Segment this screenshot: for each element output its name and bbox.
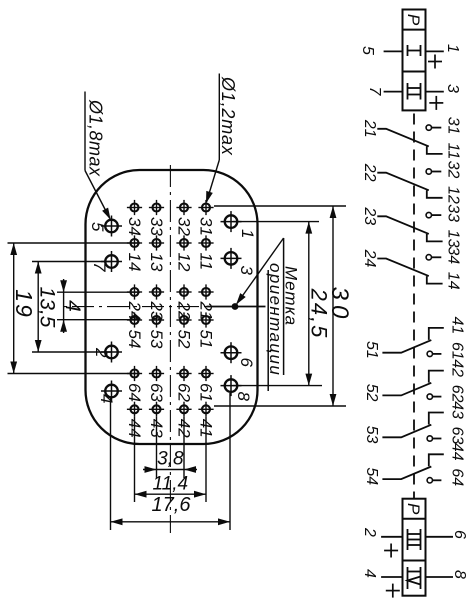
wire winding III to pin 2 bbox=[381, 536, 402, 538]
svg-text:Р: Р bbox=[404, 503, 423, 515]
small contact pin 62 bbox=[176, 366, 191, 381]
label Metka orientacii shelf bbox=[283, 238, 285, 375]
svg-text:14: 14 bbox=[125, 253, 144, 272]
contact group 21: fixed contact 31 (circle) bbox=[426, 125, 441, 130]
orientation mark dot bbox=[232, 303, 239, 310]
small contact pin 32 bbox=[176, 200, 191, 215]
wire winding IV to pin 4 bbox=[381, 576, 402, 578]
dim 11,4 line bbox=[135, 493, 207, 495]
svg-text:Ø1,8max: Ø1,8max bbox=[86, 99, 106, 177]
vertical centerline bbox=[61, 306, 234, 308]
svg-text:53: 53 bbox=[147, 330, 166, 349]
wire winding II to pin 7 bbox=[384, 91, 403, 93]
small contact pin 21 bbox=[198, 284, 213, 299]
contact group 21: movable arm from pin 21 bbox=[377, 129, 429, 147]
svg-text:3,8: 3,8 bbox=[157, 449, 184, 470]
svg-text:34: 34 bbox=[445, 246, 462, 264]
svg-text:31: 31 bbox=[197, 217, 216, 236]
callout Ø1,2max shelf bbox=[218, 74, 220, 161]
dim 4 line (outside arrows) bbox=[63, 279, 65, 333]
svg-text:11: 11 bbox=[197, 253, 216, 271]
svg-text:61: 61 bbox=[197, 383, 216, 402]
svg-text:54: 54 bbox=[363, 467, 380, 485]
svg-text:22: 22 bbox=[361, 163, 378, 182]
contact group 22: fixed contact 12 (L) bbox=[427, 190, 443, 198]
small contact pin 24 bbox=[127, 284, 142, 299]
large contact pin 7 bbox=[101, 251, 122, 272]
svg-text:43: 43 bbox=[449, 401, 466, 419]
svg-text:51: 51 bbox=[363, 341, 380, 359]
dim 24,5 line bbox=[308, 222, 310, 386]
contact group 23: fixed contact 33 (circle) bbox=[426, 212, 441, 217]
label Metka leader arrow to orientation dot bbox=[237, 238, 284, 304]
small contact pin 42 bbox=[176, 402, 191, 417]
callout Ø1,8max shelf bbox=[84, 92, 86, 171]
contact group 52: fixed contact 62 (circle) bbox=[427, 394, 441, 399]
dim 3,8 line (outside arrows) bbox=[143, 469, 197, 471]
contact group 51: movable arm from pin 51 bbox=[382, 340, 431, 353]
svg-text:62: 62 bbox=[449, 385, 466, 403]
svg-text:32: 32 bbox=[445, 161, 462, 179]
dim 19 extension line (col 6x) bbox=[8, 373, 141, 375]
svg-text:3: 3 bbox=[444, 84, 461, 93]
connector body outline (rounded rectangle) bbox=[86, 170, 258, 444]
svg-text:7: 7 bbox=[366, 87, 383, 97]
wire winding II to pin 3 bbox=[426, 91, 444, 93]
small contact pin 63 bbox=[149, 366, 164, 381]
contact group 24: fixed contact 14 (L) bbox=[427, 276, 443, 284]
svg-text:4: 4 bbox=[361, 569, 378, 578]
svg-text:44: 44 bbox=[449, 443, 466, 461]
svg-text:12: 12 bbox=[175, 253, 194, 272]
svg-text:33: 33 bbox=[445, 204, 462, 222]
small contact pin 33 bbox=[149, 200, 164, 215]
svg-text:52: 52 bbox=[175, 330, 194, 349]
svg-text:17,6: 17,6 bbox=[152, 494, 192, 516]
relay coil box U2 (P, windings III, IV) bbox=[403, 499, 426, 596]
horizontal centerline bbox=[169, 165, 171, 533]
small contact pin 12 bbox=[176, 235, 191, 250]
winding II numeral bbox=[408, 83, 421, 100]
dim 4 extension line (col 5x) bbox=[57, 319, 140, 321]
large contact pin 6 bbox=[221, 342, 242, 363]
svg-text:31: 31 bbox=[445, 117, 462, 135]
svg-text:63: 63 bbox=[147, 383, 166, 402]
callout Ø1,2max leader arrow to pin 31 bbox=[207, 160, 220, 202]
svg-text:6: 6 bbox=[237, 358, 256, 368]
small contact pin 51 bbox=[198, 312, 213, 327]
svg-text:ориентации: ориентации bbox=[266, 263, 285, 376]
dim 24,5 extension line left (pin 1) bbox=[233, 221, 319, 223]
svg-text:19: 19 bbox=[11, 289, 37, 319]
contact group 51: fixed contact 41 (L) bbox=[429, 328, 444, 340]
polarity mark + (pin 2) bbox=[384, 544, 398, 558]
svg-text:4: 4 bbox=[61, 300, 84, 312]
small contact pin 23 bbox=[149, 284, 164, 299]
svg-text:11,4: 11,4 bbox=[153, 474, 189, 495]
svg-text:3: 3 bbox=[237, 266, 256, 276]
svg-text:64: 64 bbox=[125, 383, 144, 402]
svg-text:62: 62 bbox=[175, 383, 194, 402]
small contact pin 31 bbox=[198, 200, 213, 215]
contact group 52: movable arm from pin 52 bbox=[382, 383, 431, 396]
winding III numeral bbox=[408, 529, 421, 550]
dim 30 extension line right (col 4x) bbox=[214, 405, 346, 407]
polarity mark + (pin 4) bbox=[386, 584, 400, 598]
svg-text:12: 12 bbox=[445, 186, 462, 204]
wire winding I to pin 5 bbox=[384, 50, 403, 52]
svg-text:Ø1,2max: Ø1,2max bbox=[218, 76, 238, 156]
small contact pin 41 bbox=[198, 402, 213, 417]
dim 4 extension line (col 2x) bbox=[57, 291, 140, 293]
svg-text:53: 53 bbox=[363, 426, 380, 444]
contact group 54: movable arm from pin 54 bbox=[382, 467, 431, 480]
svg-text:Р: Р bbox=[404, 14, 423, 26]
svg-text:63: 63 bbox=[449, 427, 466, 445]
small contact pin 14 bbox=[127, 235, 142, 250]
svg-text:13,5: 13,5 bbox=[36, 287, 59, 328]
svg-text:54: 54 bbox=[125, 330, 144, 349]
wire winding III to pin 6 bbox=[426, 536, 454, 538]
label Metka orientacii underline bbox=[267, 270, 269, 391]
svg-text:13: 13 bbox=[445, 230, 462, 248]
large contact pin 2 bbox=[101, 342, 122, 363]
small contact pin 44 bbox=[127, 402, 142, 417]
contact group 21: fixed contact 11 (L) bbox=[427, 146, 443, 154]
svg-text:1: 1 bbox=[238, 229, 257, 238]
large contact pin 3 bbox=[221, 248, 242, 269]
dim 17,6 line bbox=[111, 521, 231, 523]
small contact pin 43 bbox=[149, 402, 164, 417]
small contact pin 11 bbox=[198, 235, 213, 250]
svg-text:4: 4 bbox=[97, 394, 116, 403]
small contact pin 53 bbox=[149, 312, 164, 327]
dim 3,8 extension line (pin 42) bbox=[183, 417, 185, 478]
contact group 53: movable arm from pin 53 bbox=[382, 425, 431, 438]
dim 30 extension line left (col 3x) bbox=[214, 205, 346, 207]
svg-text:21: 21 bbox=[361, 119, 378, 138]
svg-text:32: 32 bbox=[175, 217, 194, 236]
contact group 53: fixed contact 43 (L) bbox=[429, 413, 444, 425]
dim 3,8 extension line (pin 43) bbox=[156, 417, 158, 478]
callout Ø1,8max leader arrow to pin 5 bbox=[85, 171, 110, 219]
svg-text:23: 23 bbox=[361, 206, 378, 225]
dim 17,6 extension line (pin 8) bbox=[229, 393, 231, 530]
svg-text:61: 61 bbox=[449, 342, 466, 360]
svg-text:24: 24 bbox=[361, 249, 378, 268]
orientation mark line bbox=[207, 306, 266, 308]
dim 24,5 extension line right (pin 8) bbox=[233, 385, 322, 387]
svg-text:8: 8 bbox=[451, 570, 468, 579]
small contact pin 54 bbox=[127, 312, 142, 327]
small contact pin 61 bbox=[198, 366, 213, 381]
svg-text:52: 52 bbox=[363, 384, 380, 402]
small contact pin 52 bbox=[176, 312, 191, 327]
svg-text:6: 6 bbox=[451, 530, 468, 539]
dim 19 line bbox=[13, 243, 15, 374]
contact group 22: fixed contact 32 (circle) bbox=[426, 169, 441, 174]
dim 11,4 extension line (pin 44) bbox=[134, 417, 136, 502]
svg-text:11: 11 bbox=[445, 143, 462, 160]
svg-text:2: 2 bbox=[361, 527, 378, 537]
svg-text:64: 64 bbox=[449, 468, 466, 486]
dim 13,5 extension line (pin 7) bbox=[32, 261, 112, 263]
small contact pin 64 bbox=[127, 366, 142, 381]
contact group 51: fixed contact 61 (circle) bbox=[427, 351, 441, 356]
svg-text:8: 8 bbox=[234, 392, 253, 402]
mechanical linkage (dashed) bbox=[413, 114, 415, 499]
contact group 23: fixed contact 13 (L) bbox=[427, 234, 443, 242]
large contact pin 5 bbox=[101, 216, 122, 237]
large contact pin 8 bbox=[221, 375, 242, 396]
wire winding I to pin 1 bbox=[426, 50, 444, 52]
contact group 52: fixed contact 42 (L) bbox=[429, 371, 444, 383]
dim 17,6 extension line (pin 4) bbox=[110, 398, 112, 530]
contact group 24: fixed contact 34 (circle) bbox=[426, 255, 441, 260]
dim 13,5 extension line (pin 2) bbox=[32, 351, 112, 353]
polarity mark + (pin 3) bbox=[429, 96, 443, 110]
svg-text:5: 5 bbox=[359, 46, 376, 55]
svg-text:24,5: 24,5 bbox=[307, 288, 332, 340]
small contact pin 13 bbox=[149, 235, 164, 250]
contact group 23: movable arm from pin 23 bbox=[377, 216, 429, 234]
dim 30 line bbox=[332, 206, 334, 406]
dim 19 extension line (col 1x) bbox=[8, 242, 141, 244]
wire winding IV to pin 8 bbox=[426, 576, 454, 578]
dim 11,4 extension line (pin 41) bbox=[205, 417, 207, 502]
svg-text:33: 33 bbox=[147, 217, 166, 236]
small contact pin 22 bbox=[176, 284, 191, 299]
contact group 53: fixed contact 63 (circle) bbox=[427, 436, 441, 441]
small contact pin 34 bbox=[127, 200, 142, 215]
contact group 54: fixed contact 64 (circle) bbox=[427, 478, 441, 483]
svg-text:42: 42 bbox=[449, 359, 466, 377]
relay coil box U1 (P, windings I, II) bbox=[403, 10, 426, 111]
svg-text:1: 1 bbox=[444, 44, 461, 53]
svg-text:41: 41 bbox=[449, 317, 466, 335]
svg-text:7: 7 bbox=[90, 262, 109, 272]
svg-text:14: 14 bbox=[445, 272, 462, 290]
dim 13,5 line bbox=[37, 262, 39, 353]
svg-text:5: 5 bbox=[88, 222, 107, 232]
contact group 22: movable arm from pin 22 bbox=[377, 173, 429, 191]
contact group 54: fixed contact 44 (L) bbox=[429, 454, 444, 466]
contact group 24: movable arm from pin 24 bbox=[377, 259, 429, 277]
svg-text:13: 13 bbox=[147, 253, 166, 272]
large contact pin 4 bbox=[101, 381, 122, 402]
polarity mark + (pin 1) bbox=[428, 55, 442, 69]
large contact pin 1 bbox=[221, 211, 242, 232]
winding IV numeral bbox=[408, 567, 421, 589]
winding I numeral bbox=[408, 45, 421, 56]
svg-text:34: 34 bbox=[125, 217, 144, 236]
svg-text:51: 51 bbox=[197, 330, 216, 349]
